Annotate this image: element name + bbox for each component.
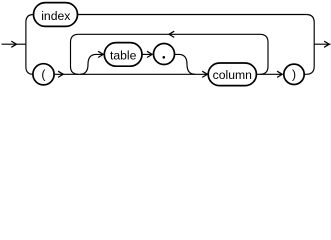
wire arrowhead into table <box>98 51 103 57</box>
label dot <box>163 56 166 59</box>
wire exit arrowhead <box>324 41 329 47</box>
wire bottom main line <box>54 73 207 75</box>
wire entry line <box>2 43 26 45</box>
node open paren circle <box>33 64 54 85</box>
wire loop left side <box>71 34 79 74</box>
svg-text:): ) <box>292 68 296 82</box>
wire loop return line <box>78 33 260 35</box>
svg-text:(: ( <box>41 68 45 82</box>
wire arrowhead into dot <box>147 51 152 57</box>
svg-text:index: index <box>41 9 70 23</box>
wire loop return arrowhead <box>169 31 174 37</box>
node index oval <box>34 3 78 27</box>
wire branch up to table <box>80 54 103 74</box>
node column oval <box>208 63 256 86</box>
wire right trunk with corners <box>306 15 314 75</box>
wire index branch line <box>78 14 307 16</box>
wire table to dot line <box>142 53 152 55</box>
node table oval <box>104 43 142 67</box>
wire close paren to trunk <box>304 73 306 75</box>
wire column to close paren line <box>256 73 282 75</box>
wire arrowhead after open paren <box>58 71 63 77</box>
wire exit line <box>314 43 330 45</box>
svg-text:column: column <box>213 68 252 82</box>
wire arrowhead into column <box>202 71 207 77</box>
wire arrowhead into close paren <box>277 71 282 77</box>
svg-text:table: table <box>110 49 137 63</box>
wire loop right side <box>260 34 268 74</box>
node dot circle <box>154 44 175 65</box>
node close paren circle <box>284 64 304 84</box>
wire entry arrowhead <box>11 41 16 47</box>
wire left trunk with corners <box>26 15 34 75</box>
wire branch down from dot <box>175 54 196 74</box>
